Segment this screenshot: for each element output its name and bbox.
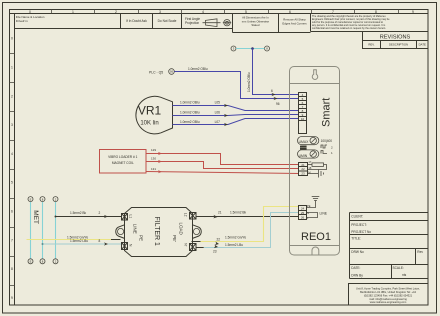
svg-text:REO1: REO1	[301, 231, 331, 243]
MET phase line 2	[42, 202, 44, 259]
svg-text:5: 5	[11, 181, 13, 185]
svg-text:1.5mm2 LBu: 1.5mm2 LBu	[70, 239, 88, 243]
svg-text:26: 26	[301, 216, 305, 220]
left grid reference strip	[10, 14, 15, 306]
svg-text:UMIN: UMIN	[299, 154, 308, 158]
REO1 internal resistor	[308, 160, 327, 170]
filter right lug hole	[193, 228, 199, 234]
filter terminal N	[122, 243, 128, 250]
link terminal 3	[231, 46, 236, 51]
svg-text:Drive# in: Drive# in	[16, 19, 28, 23]
wire light blue MET to filter N	[42, 239, 122, 245]
svg-text:DATE:: DATE:	[351, 266, 360, 270]
svg-text:1.5mm2 Bk: 1.5mm2 Bk	[70, 211, 87, 215]
REO1 UMAX trimmer	[298, 137, 333, 145]
svg-text:If In Doubt Ask: If In Doubt Ask	[126, 19, 147, 23]
REO1 terminal strip 21-23	[299, 163, 308, 176]
svg-text:4: 4	[202, 10, 204, 14]
filter PE stub left	[111, 239, 121, 241]
svg-text:MET: MET	[32, 210, 39, 224]
revisions table	[363, 32, 429, 49]
svg-text:23: 23	[213, 249, 217, 253]
header cell: all dimensions	[242, 16, 270, 28]
controller REO1 enclosure	[290, 67, 340, 256]
wire green/yellow MET to filter PE	[27, 235, 112, 239]
svg-text:1.0mm2 OBlu: 1.0mm2 OBlu	[180, 101, 200, 105]
filter left mounting lug	[116, 225, 125, 239]
wire black filter L1' to REO1 26	[196, 210, 299, 218]
svg-text:VIBRO LOADER # 1: VIBRO LOADER # 1	[108, 155, 137, 159]
svg-text:DATE: DATE	[419, 43, 426, 47]
svg-text:L07: L07	[215, 120, 221, 124]
REO1 waveform selector icons	[321, 145, 333, 155]
MET top terminal 8	[40, 197, 45, 202]
svg-text:FILTER 1: FILTER 1	[153, 217, 160, 247]
svg-text:PE: PE	[307, 204, 311, 208]
svg-text:1: 1	[11, 66, 13, 70]
filter F1 group	[111, 208, 201, 257]
svg-text:PE': PE'	[172, 235, 177, 242]
REO1 jumper links	[300, 146, 307, 150]
svg-text:2: 2	[115, 10, 117, 14]
MET bottom terminal 2	[53, 259, 58, 264]
svg-text:S6: S6	[170, 70, 174, 74]
svg-text:CLIENT:: CLIENT:	[351, 214, 363, 218]
wire green/yellow filter PE' to REO1 24	[201, 207, 300, 246]
svg-text:MAGNET COIL: MAGNET COIL	[112, 161, 134, 165]
filter terminal L1	[122, 214, 128, 221]
svg-text:UMAX: UMAX	[299, 140, 310, 144]
svg-text:130: 130	[151, 156, 156, 160]
svg-text:SCALE:: SCALE:	[393, 266, 404, 270]
svg-text:Bedfordshire LU1 3BG, United K: Bedfordshire LU1 3BG, United Kingdom Tel…	[360, 290, 416, 294]
svg-text:LINE: LINE	[320, 212, 328, 216]
header cell: file name	[16, 15, 45, 23]
address block	[349, 284, 429, 306]
wire black MET to filter L1	[55, 211, 122, 218]
svg-text:L05: L05	[215, 101, 221, 105]
svg-text:1.0mm2 OBlu: 1.0mm2 OBlu	[247, 72, 251, 92]
svg-text:DESCRIPTION: DESCRIPTION	[389, 43, 408, 47]
MET bottom terminal 8	[40, 259, 45, 264]
svg-text:1.0mm2 OBlu: 1.0mm2 OBlu	[188, 67, 208, 71]
svg-text:5: 5	[245, 10, 247, 14]
svg-text:REVISIONS: REVISIONS	[380, 35, 411, 41]
svg-text:22: 22	[301, 167, 305, 171]
svg-text:3: 3	[11, 123, 13, 127]
wire blue VR1 pin3 to REO1 10	[173, 119, 300, 127]
bottom notch	[312, 247, 319, 255]
svg-text:8: 8	[375, 10, 377, 14]
svg-text:7: 7	[11, 238, 13, 242]
svg-text:PROJECT No: PROJECT No	[351, 230, 371, 234]
svg-text:100|400: 100|400	[321, 139, 333, 143]
MET phase line 1	[30, 202, 32, 259]
svg-text:25: 25	[301, 211, 305, 215]
title block	[350, 213, 429, 279]
svg-text:Edges And Corners: Edges And Corners	[282, 21, 307, 25]
svg-text:10K lin: 10K lin	[140, 120, 158, 126]
svg-text:N: N	[307, 211, 309, 215]
svg-text:1.5mm2 LBu: 1.5mm2 LBu	[225, 243, 243, 247]
svg-text:REV.: REV.	[368, 43, 374, 47]
svg-text:9: 9	[412, 10, 414, 14]
link terminal 8	[265, 46, 270, 51]
MET top terminal 2	[53, 197, 58, 202]
svg-text:1.5mm2 Bk: 1.5mm2 Bk	[230, 210, 247, 214]
svg-text:E: E	[30, 197, 32, 201]
wire red coil to REO1 22	[146, 156, 299, 168]
svg-text:VR1: VR1	[138, 104, 162, 118]
vibro loader magnet coil box	[100, 150, 147, 174]
svg-text:7: 7	[332, 10, 334, 14]
wire blue VR1 pin2 to REO1 9	[173, 111, 300, 118]
svg-text:2: 2	[99, 211, 101, 215]
filter right mounting lug	[193, 225, 202, 239]
svg-text:PLC - Q5: PLC - Q5	[149, 71, 163, 75]
filter PE stub right	[192, 241, 201, 243]
svg-text:LOAD: LOAD	[179, 223, 184, 236]
svg-text:6: 6	[11, 210, 13, 214]
svg-text:9: 9	[11, 296, 13, 300]
svg-text:1.0mm2 OBlu: 1.0mm2 OBlu	[180, 120, 200, 124]
header cell: copyright notice	[311, 15, 429, 31]
svg-text:mail: info@mahereu-engineering: mail: info@mahereu-engineering	[369, 297, 407, 301]
svg-text:0: 0	[11, 37, 13, 41]
REO1 control terminal strip 4-10	[299, 93, 307, 134]
svg-text:24: 24	[301, 206, 305, 210]
keyhole mount	[312, 70, 318, 80]
wire red coil to REO1 21	[146, 148, 299, 165]
svg-text:www.mahereu-engineering.com: www.mahereu-engineering.com	[370, 300, 406, 304]
wire blue VR1 pin1 to REO1 8	[173, 101, 300, 111]
REO1 LINE bracket	[307, 211, 328, 220]
svg-text:L1: L1	[129, 215, 133, 219]
svg-text:22: 22	[217, 237, 221, 241]
MET phase line 3	[55, 202, 57, 259]
svg-text:N': N'	[183, 243, 187, 246]
svg-text:4: 4	[11, 152, 13, 156]
svg-text:23: 23	[301, 172, 305, 176]
REO1 PE earth symbol	[307, 197, 320, 209]
svg-text:DRW No: DRW No	[351, 250, 364, 254]
MET top terminal E	[28, 197, 33, 202]
svg-text:PROJECT:: PROJECT:	[351, 223, 367, 227]
svg-text:Rev: Rev	[417, 250, 423, 254]
svg-text:0: 0	[29, 10, 31, 14]
svg-text:1: 1	[72, 10, 74, 14]
svg-text:confidential and must be retai: confidential and must be retained on req…	[312, 27, 386, 30]
svg-text:8: 8	[99, 239, 101, 243]
svg-text:10: 10	[301, 117, 305, 121]
svg-text:1.5mm2 Gn/Ye: 1.5mm2 Gn/Ye	[225, 236, 246, 240]
svg-text:129: 129	[151, 148, 156, 152]
PLC Q5 source	[149, 69, 174, 75]
REO1 internal ground from 23	[308, 170, 324, 178]
svg-text:Unit 8, Acme Trading Complex,: Unit 8, Acme Trading Complex, Park Stree…	[356, 287, 420, 291]
filter terminal L1'	[190, 213, 197, 220]
header cell: first angle projection	[185, 17, 231, 26]
svg-text:21: 21	[218, 210, 222, 214]
svg-text:L06: L06	[215, 111, 221, 115]
svg-text:PE: PE	[139, 235, 144, 241]
wire light blue filter N' to REO1 25	[196, 213, 299, 254]
svg-text:TITLE:: TITLE:	[351, 236, 361, 240]
svg-text:3: 3	[159, 10, 161, 14]
svg-text:Do Not Scale: Do Not Scale	[158, 19, 177, 23]
svg-text:1.0mm2 OBlu: 1.0mm2 OBlu	[180, 111, 200, 115]
potentiometer VR1	[136, 96, 173, 134]
filter terminal N'	[190, 244, 197, 251]
svg-text:96: 96	[276, 102, 280, 106]
wire blue link to REO1 4	[247, 47, 299, 96]
header cell: remove sharp edges	[282, 18, 307, 26]
MET bottom terminal E	[28, 259, 33, 264]
svg-text:(0)1582 123456 Fax: +44 (0)1: (0)1582 123456 Fax: +44 (0)1582 654321	[364, 293, 413, 297]
svg-text:DRN By: DRN By	[351, 274, 363, 278]
filter body	[125, 208, 193, 257]
svg-text:6: 6	[271, 89, 273, 93]
svg-text:6: 6	[289, 10, 291, 14]
REO1 terminal strip 24-26	[299, 206, 307, 220]
wire blue PLC to REO1 5	[174, 67, 299, 106]
svg-text:8: 8	[11, 267, 13, 271]
svg-text:Projection: Projection	[185, 21, 199, 25]
svg-text:nts: nts	[402, 273, 407, 277]
wire red coil to REO1 23	[146, 167, 299, 174]
svg-text:Smart: Smart	[321, 98, 333, 127]
filter left lug hole	[118, 228, 124, 234]
MET supply group	[28, 197, 58, 264]
svg-text:2: 2	[11, 94, 13, 98]
header band cells	[15, 14, 311, 33]
svg-text:LINE: LINE	[132, 224, 137, 234]
svg-text:Stated: Stated	[251, 23, 260, 27]
cyan link wire	[236, 48, 265, 50]
svg-text:131: 131	[151, 167, 156, 171]
REO1 UMIN trimmer	[298, 150, 319, 158]
svg-text:E: E	[30, 260, 32, 264]
top grid reference strip	[10, 10, 429, 14]
svg-text:L1': L1'	[183, 213, 187, 218]
